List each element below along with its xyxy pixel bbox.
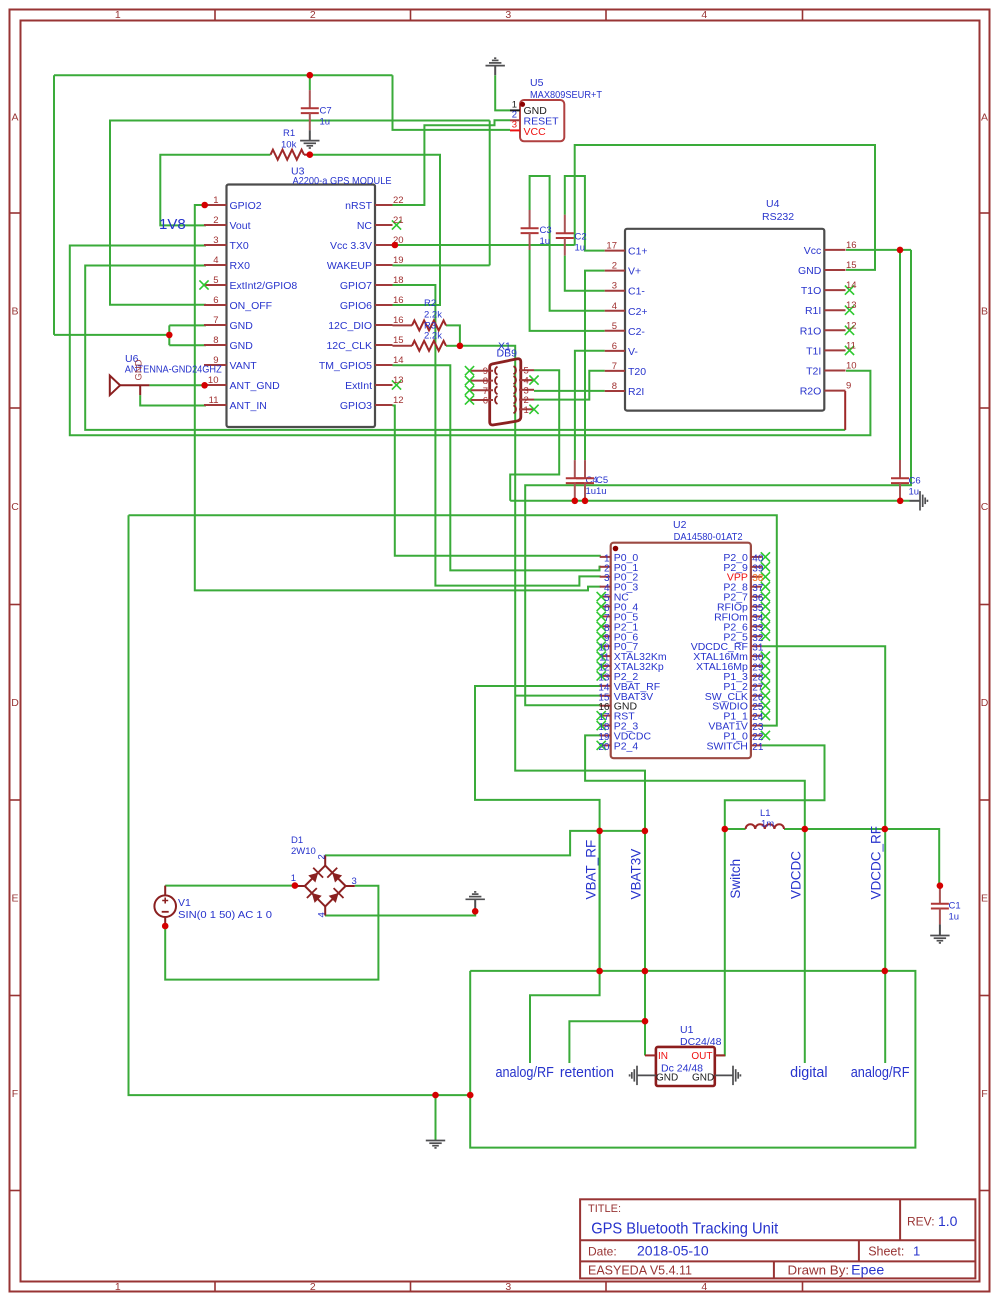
U4 pin 6 V- [605,350,625,352]
D1 diode 4-1 [305,886,325,906]
svg-text:V1: V1 [178,897,191,909]
wire V1 bottom loop to D1 pin3 [165,886,378,980]
wire nRST to U5 RESET [393,120,511,205]
svg-text:nRST: nRST [345,200,372,212]
wire R2O red vertical [844,391,846,430]
svg-text:C6: C6 [909,476,921,487]
svg-text:16: 16 [846,240,857,251]
wire D1 pin2 to VBAT rail [325,831,645,856]
svg-text:E: E [981,893,988,905]
wire left big loop down to bottom gnd line [129,515,471,1095]
capacitor C2 [564,215,566,234]
wire V1 top to D1 pin1 [165,885,295,887]
D1 diode 1-2 [305,866,325,886]
svg-text:1u: 1u [949,912,960,923]
svg-text:1: 1 [115,9,121,21]
U1 left ground symbol [637,1074,656,1076]
U3 pin 2 Vout [204,224,227,226]
wire GPIO3 down to U2 P0_0 [393,406,601,556]
svg-text:17: 17 [606,241,617,252]
svg-text:MAX809SEUR+T: MAX809SEUR+T [530,89,603,101]
U2 pin 8 P2_1 [600,625,611,627]
svg-text:20: 20 [598,742,610,753]
U3 pin 8 GND [204,344,227,346]
X1 pin 3 [519,389,534,391]
svg-text:DB9: DB9 [497,348,518,360]
svg-text:12: 12 [393,395,404,406]
wire C2 bottom to U4 C1- [565,256,605,291]
U2 pin 33 P2_6 [751,625,762,627]
U2 pin 1 P0_0 [600,556,611,558]
svg-text:4: 4 [612,301,617,312]
X1 pin 7 [470,389,494,391]
X1 pin 1 [519,408,534,410]
svg-text:3: 3 [352,876,357,887]
svg-text:D: D [981,697,989,709]
svg-text:VDCDC: VDCDC [789,851,804,899]
U2 pin 18 P2_3 [600,725,611,727]
svg-text:T20: T20 [628,366,646,378]
svg-text:15: 15 [393,335,404,346]
ground below C7 [309,130,311,140]
svg-text:3: 3 [612,281,617,292]
wire pin8 GND [169,344,206,346]
U4 pin 11 T1I [824,349,845,351]
svg-text:2: 2 [310,1281,316,1293]
wire R2/R3 junction to U2 VBAT3V [460,346,645,1056]
svg-text:A: A [981,112,988,124]
wire DB9 pin2 to U4 T20 [534,371,605,400]
U2 pin 36 P2_7 [751,596,762,598]
U3 pin 1 GPIO2 [204,204,227,206]
svg-text:ANT_IN: ANT_IN [230,400,267,412]
wire C2 top loop to U4 C1+ [565,176,605,251]
svg-text:2.2k: 2.2k [424,331,442,342]
svg-text:R2O: R2O [800,386,822,398]
wire C3 top loop to U4 C2+ [530,176,605,311]
U2 pin 24 P1_1 [751,715,762,717]
U4 pin 10 T2I [824,370,845,372]
svg-text:12: 12 [846,320,857,331]
svg-text:1: 1 [213,195,218,206]
U4 pin 17 C1+ [605,250,625,252]
svg-text:Vout: Vout [230,220,251,232]
U2 pin 5 NC [600,596,611,598]
svg-text:VDCDC_RF: VDCDC_RF [869,826,884,900]
svg-text:RS232: RS232 [762,211,794,223]
svg-text:18: 18 [393,275,404,286]
svg-text:16: 16 [393,315,404,326]
wire antenna to ANT_GND [149,384,204,386]
svg-text:analog/RF: analog/RF [851,1064,910,1081]
svg-text:6: 6 [213,295,218,306]
svg-text:3: 3 [512,120,517,131]
svg-text:GPS Bluetooth Tracking Unit: GPS Bluetooth Tracking Unit [591,1221,779,1238]
U1 pin IN [645,1054,656,1056]
U4 pin 16 Vcc [824,249,845,251]
capacitor C5 [584,460,586,478]
svg-text:C1+: C1+ [628,246,648,258]
svg-text:13: 13 [393,375,404,386]
U2 pin 10 P0_7 [600,645,611,647]
svg-text:3: 3 [505,9,511,21]
wire x=54 down from rail [53,75,55,335]
wire TM_GPIO5 down to U2 P0_1 [393,365,601,570]
svg-text:Date:: Date: [588,1245,617,1259]
resistor R2 2.2k [393,324,413,326]
U3 pin 19 WAKEUP [375,264,393,266]
svg-text:13: 13 [846,300,857,311]
wire ground line y=500.8 [510,500,909,502]
wire pin7 GND [169,324,206,326]
U3 pin 20 Vcc 3.3V [375,244,393,246]
inductor L1 1m [746,824,784,829]
svg-text:Epee: Epee [851,1262,884,1278]
U2 pin 28 P1_3 [751,675,762,677]
svg-text:1m: 1m [761,819,774,830]
U2 pin 31 VDCDC_RF [751,645,762,647]
op-amp U5 MAX809SEUR+T box [520,100,564,141]
svg-text:TX0: TX0 [230,240,249,252]
U2 pin-1 marker dot [613,546,619,552]
svg-text:TM_GPIO5: TM_GPIO5 [319,360,372,372]
U4 pin 9 R2O [824,390,845,392]
svg-text:VBAT3V: VBAT3V [629,849,644,900]
resistor R1 10k [271,150,305,160]
U2 pin 26 SW_CLK [751,695,762,697]
svg-text:10: 10 [208,375,219,386]
U2 pin 2 P0_1 [600,566,611,568]
svg-text:12C_DIO: 12C_DIO [328,320,372,332]
svg-text:10: 10 [846,361,857,372]
wire DB9 pin5 to gnd line [510,370,559,501]
wire U2 VBAT_RF pin14 to label and loop [475,686,601,1063]
svg-text:GND: GND [230,340,254,352]
U2 pin 7 P0_5 [600,615,611,617]
svg-text:Switch: Switch [728,859,743,899]
frame column ticks and numbers [214,10,216,21]
X1 pin 9 [470,370,494,372]
svg-text:VBAT_RF: VBAT_RF [584,840,599,900]
U2 pin 32 P2_5 [751,635,762,637]
svg-text:A2200-a GPS MODULE: A2200-a GPS MODULE [293,175,392,187]
U5 pin 1 GND [510,109,520,111]
ground bottom left [426,1141,445,1148]
svg-text:2018-05-10: 2018-05-10 [637,1243,709,1259]
svg-text:1: 1 [913,1244,920,1259]
svg-text:C7: C7 [320,106,332,117]
svg-text:2: 2 [310,9,316,21]
svg-text:VCC: VCC [524,126,547,138]
svg-text:1.0: 1.0 [938,1213,958,1229]
wire WAKEUP pin19 [393,264,490,266]
svg-text:OUT: OUT [691,1051,712,1062]
svg-text:A: A [11,112,18,124]
svg-text:GPIO6: GPIO6 [340,300,372,312]
X1 pin 2 [519,399,534,401]
svg-text:B: B [981,305,988,317]
U3 pin 16 GPIO6 [375,304,393,306]
svg-text:2: 2 [213,215,218,226]
svg-text:E: E [11,893,18,905]
svg-text:3: 3 [505,1281,511,1293]
capacitor C1 [939,886,941,904]
svg-text:5: 5 [612,321,617,332]
svg-text:7: 7 [612,361,617,372]
D1 diode 3-2 [325,866,345,886]
svg-text:EASYEDA V5.4.11: EASYEDA V5.4.11 [588,1264,692,1278]
svg-text:C1: C1 [949,901,961,912]
U3 pin 21 NC [375,224,393,226]
U2 pin 17 RST [600,715,611,717]
ground above D1 pin4 wire [474,899,476,911]
wire to GND pins U-bracket [54,334,169,336]
X1 pin 5 [519,369,534,371]
svg-text:REV:: REV: [907,1215,935,1229]
U5 pin-1 marker dot [520,102,525,107]
wire big loop rectangle [470,971,915,1148]
X1 pin 6 [470,399,494,401]
svg-text:T1O: T1O [801,285,821,297]
svg-text:U2: U2 [673,519,687,531]
U2 pin 40 P2_0 [751,556,762,558]
svg-text:retention: retention [560,1064,614,1081]
svg-text:1u: 1u [540,236,551,247]
svg-text:SWITCH: SWITCH [706,740,747,752]
svg-text:GND: GND [656,1073,678,1084]
svg-text:F: F [981,1088,987,1100]
capacitor C3 [529,210,531,228]
wire C3 bottom to U4 C2- [530,250,605,331]
svg-text:DA14580-01AT2: DA14580-01AT2 [674,531,743,543]
U2 pin 4 P0_3 [600,586,611,588]
svg-text:C2-: C2- [628,326,645,338]
svg-text:2: 2 [612,261,617,272]
U4 pin 7 T20 [605,370,625,372]
svg-text:4: 4 [317,912,328,917]
U4 pin 2 V+ [605,270,625,272]
svg-text:P2_4: P2_4 [614,740,639,752]
wire U4 Vcc net to C6 and down to U2 GND [846,249,911,251]
U2 pin 16 GND [600,705,611,707]
U2 pin 37 P2_8 [751,586,762,588]
svg-text:21: 21 [393,215,404,226]
svg-text:R1I: R1I [805,305,821,317]
svg-text:C3: C3 [540,225,552,236]
svg-text:U1: U1 [680,1024,694,1036]
U2 pin 34 RFIOm [751,615,762,617]
U3 pin 7 GND [204,324,227,326]
voltage source V1 SIN [154,895,176,917]
svg-text:Vcc 3.3V: Vcc 3.3V [330,240,372,252]
svg-text:IN: IN [658,1051,668,1062]
svg-text:10k: 10k [281,140,297,151]
U3 pin 6 ON_OFF [204,304,227,306]
svg-text:ExtInt2/GPIO8: ExtInt2/GPIO8 [230,280,298,292]
svg-text:14: 14 [393,355,404,366]
U2 pin 22 P1_0 [751,734,762,736]
svg-text:Sheet:: Sheet: [868,1245,904,1259]
U3 pin 3 TX0 [204,244,227,246]
svg-text:1: 1 [115,1281,121,1293]
capacitor C6 [899,460,901,478]
svg-text:C1-: C1- [628,286,645,298]
svg-text:ANT_GND: ANT_GND [230,380,281,392]
svg-text:Vcc: Vcc [804,245,822,257]
svg-text:6: 6 [612,341,617,352]
ground below C1 [939,924,941,935]
svg-text:22: 22 [393,195,404,206]
wire DB9 pin3 to U4 R2I [534,390,605,392]
U2 pin 27 P1_2 [751,685,762,687]
U3 pin 14 TM_GPIO5 [375,364,393,366]
svg-text:ExtInt: ExtInt [345,380,372,392]
U5 pin 3 VCC [510,129,520,131]
U3 pin 4 RX0 [204,264,227,266]
svg-text:9: 9 [846,381,851,392]
wire GND7 net top rail y=75 [54,74,393,76]
svg-text:4: 4 [701,9,707,21]
wire VBAT_RF label vertical continues to loop edge [599,831,601,971]
U4 pin 14 T1O [824,289,845,291]
svg-text:1u: 1u [586,486,597,497]
wire U2 VBAT3V pin15 row [515,695,601,697]
U3 pin 12 GPIO3 [375,404,393,406]
frame row ticks and letters [10,212,21,214]
wire U4 V+ down to C5 top [585,271,605,461]
svg-text:RX0: RX0 [230,260,251,272]
wire D1 pin4 to ground [325,911,475,915]
svg-text:11: 11 [209,395,219,406]
U2 pin 30 XTAL16Mm [751,655,762,657]
U2 pin 12 XTAL32Kp [600,665,611,667]
U3 pin 22 nRST [375,204,393,206]
svg-text:SIN(0 1 50) AC 1 0: SIN(0 1 50) AC 1 0 [178,909,272,921]
sideways ground right of bottom gnd line [910,500,921,502]
svg-text:D1: D1 [291,835,303,846]
op-amp U3 A2200-a GPS MODULE box [227,185,376,428]
svg-text:4: 4 [701,1281,707,1293]
svg-text:14: 14 [846,280,857,291]
U4 pin 5 C2- [605,330,625,332]
wire R2 right jog down [446,325,460,345]
U1 right ground symbol [715,1074,733,1076]
U2 pin 9 P0_6 [600,635,611,637]
U2 pin 20 P2_4 [600,744,611,746]
svg-text:B: B [11,305,18,317]
U4 pin 3 C1- [605,290,625,292]
svg-text:D: D [11,697,19,709]
U2 pin 13 P2_2 [600,675,611,677]
svg-text:GND: GND [134,359,145,380]
X1 pin 4 [519,379,534,381]
svg-text:21: 21 [752,742,764,753]
svg-text:GND: GND [692,1073,714,1084]
U3 pin 15 12C_CLK [375,344,393,346]
svg-text:16: 16 [393,295,404,306]
U1 pin OUT [715,1054,725,1056]
svg-text:11: 11 [846,340,856,351]
svg-text:R2: R2 [424,298,436,309]
wire TX0 to U4 T2I [70,246,871,436]
wire rail to U5 VCC [393,75,511,130]
svg-text:3: 3 [213,235,218,246]
U2 pin 11 XTAL32Km [600,655,611,657]
capacitor C7 [309,90,311,108]
U2 pin 29 XTAL16Mp [751,665,762,667]
svg-text:digital: digital [790,1064,828,1081]
svg-text:1u: 1u [909,487,920,498]
U5 pin 2 RESET [510,119,520,121]
svg-text:2: 2 [317,854,328,859]
wire ON_OFF to U5 area y=120.5 [110,121,490,305]
wire VBAT3V vertical x=645 through dots [644,771,646,1056]
svg-text:C: C [11,501,19,513]
op-amp U1 DC24/48 box [656,1047,715,1086]
wire retention branch [569,1021,645,1063]
svg-text:T2I: T2I [806,366,821,378]
U4 pin 4 C2+ [605,310,625,312]
svg-text:WAKEUP: WAKEUP [327,260,372,272]
X1 pin 8 [470,380,494,382]
wire GPIO7 down to U2 P0_2 [393,285,601,586]
U2 pin 38 VPP [751,576,762,578]
svg-text:C: C [981,501,989,513]
U2 pin 23 VBAT1V [751,725,762,727]
resistor R3 2.2k [393,345,413,347]
svg-text:15: 15 [846,260,857,271]
svg-text:5: 5 [213,275,218,286]
wire RX0 to U4 R2O [85,266,845,430]
svg-text:T1I: T1I [806,345,821,357]
svg-text:GPIO2: GPIO2 [230,200,262,212]
wire antenna branch to ANT_IN [140,395,206,405]
svg-text:GPIO7: GPIO7 [340,280,372,292]
U2 pin 3 P0_2 [600,576,611,578]
wire U2 VDCDC_RF pin31 down to analog/RF [762,646,885,1063]
op-amp U2 DA14580-01AT2 box [611,543,751,759]
wire R3 right [446,345,460,347]
svg-text:TITLE:: TITLE: [588,1203,621,1215]
wire R1 right to GPIO6 [310,155,440,305]
U3 pin 18 GPIO7 [375,284,393,286]
svg-text:7: 7 [213,315,218,326]
svg-text:8: 8 [612,381,617,392]
wire U2 VDCDC pin19 to rail [585,735,805,829]
U2 pin 6 P0_4 [600,606,611,608]
svg-text:2.2k: 2.2k [424,310,442,321]
svg-text:GND: GND [798,265,822,277]
svg-text:C5: C5 [596,475,608,486]
title block [580,1199,975,1278]
U3 pin 10 ANT_GND [204,384,227,386]
U2 pin 35 RFIOp [751,606,762,608]
svg-text:U5: U5 [530,77,544,89]
U4 pin 8 R2I [605,390,625,392]
svg-text:1u: 1u [320,117,331,128]
wire VBAT1V long line y=515.2 [129,515,777,725]
svg-text:analog/RF: analog/RF [496,1064,554,1081]
op-amp U4 RS232 box [625,229,824,411]
svg-text:C2+: C2+ [628,306,648,318]
wire L1 rail [725,828,746,830]
svg-text:1: 1 [524,405,529,416]
D1 diode 4-3 [325,886,345,906]
capacitor C7 with lead from top rail [309,75,311,90]
svg-text:19: 19 [393,255,404,266]
svg-text:Drawn By:: Drawn By: [788,1264,850,1278]
svg-text:GPIO3: GPIO3 [340,400,372,412]
